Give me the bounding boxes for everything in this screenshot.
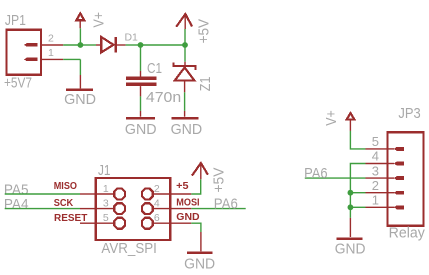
svg-text:6: 6 bbox=[154, 212, 160, 224]
svg-text:2: 2 bbox=[48, 33, 54, 45]
wire V+ to pin5 bbox=[350, 131, 365, 149]
J1 pad 1 bbox=[114, 189, 125, 200]
zener Z1 cathode pin bbox=[184, 62, 186, 66]
svg-text:Z1: Z1 bbox=[197, 77, 214, 92]
JP3 pin 1 stub bbox=[366, 206, 388, 208]
wire pin4 corner down bbox=[350, 164, 365, 218]
J1 pad line 5 bbox=[96, 222, 114, 224]
JP3 pin 4 bar bbox=[388, 163, 395, 165]
J1 pin +5 stub bbox=[170, 193, 191, 195]
wire pin1 right bbox=[63, 58, 80, 60]
zener Z1 anode pin bbox=[184, 80, 186, 92]
JP3 pin 5 bar bbox=[388, 148, 395, 150]
wire +5 to arrow bbox=[191, 179, 200, 194]
J1 pin GND stub bbox=[170, 222, 191, 224]
svg-text:3: 3 bbox=[372, 163, 379, 178]
connector JP1 box bbox=[7, 30, 42, 75]
svg-text:+5V: +5V bbox=[195, 19, 212, 43]
diode D1 bbox=[101, 37, 113, 52]
wire down to C1 bbox=[140, 45, 142, 71]
connector J1 box bbox=[96, 178, 171, 240]
junction pin1 bbox=[348, 204, 354, 210]
wire pin2 to node bbox=[63, 44, 80, 46]
svg-text:PA4: PA4 bbox=[4, 196, 29, 213]
junction node Z1 bbox=[182, 42, 188, 48]
wire node to diode bbox=[80, 44, 96, 46]
svg-text:+5: +5 bbox=[176, 180, 189, 192]
JP3 pin 2 stub bbox=[366, 192, 388, 194]
J1 pad line 4 bbox=[153, 208, 170, 210]
svg-text:2: 2 bbox=[372, 178, 379, 193]
svg-text:2: 2 bbox=[154, 183, 160, 195]
svg-text:GND: GND bbox=[184, 255, 215, 272]
svg-text:PA6: PA6 bbox=[214, 195, 238, 212]
J1 pad line 3 bbox=[96, 208, 114, 210]
svg-text:AVR_SPI: AVR_SPI bbox=[101, 240, 156, 257]
ground pin Z1 bbox=[184, 111, 186, 117]
svg-text:1: 1 bbox=[48, 47, 54, 59]
wire +5V to node bbox=[184, 29, 186, 45]
svg-text:D1: D1 bbox=[125, 31, 139, 43]
ground pin JP1 bbox=[79, 75, 81, 88]
capacitor C1 top pin bbox=[140, 71, 142, 77]
ground symbol under J1 bbox=[187, 251, 212, 254]
wire node to Z1 bbox=[184, 45, 186, 62]
svg-text:JP1: JP1 bbox=[5, 12, 26, 29]
wire net PA6 (JP3) bbox=[305, 177, 366, 179]
connector JP3 box bbox=[388, 132, 424, 226]
svg-text:5: 5 bbox=[372, 134, 379, 149]
wire C1 to ground bbox=[140, 96, 142, 111]
ground symbol under C1 bbox=[126, 117, 155, 120]
power symbol V+ (JP3) bbox=[347, 113, 355, 120]
JP3 pin 3 bar bbox=[388, 177, 395, 179]
junction node C1 bbox=[138, 42, 144, 48]
power symbol +5V (top) bbox=[184, 14, 186, 29]
wire pin2 bbox=[350, 192, 365, 194]
JP3 pin 5 stub bbox=[366, 148, 388, 150]
JP1 pin 1 stub bbox=[42, 58, 63, 60]
wire node C1 to node Z1 bbox=[141, 44, 186, 46]
wire net PA4 bbox=[5, 208, 80, 210]
J1 pin SCK stub bbox=[80, 208, 96, 210]
J1 pad 2 bbox=[142, 189, 153, 200]
svg-text:C1: C1 bbox=[147, 60, 162, 77]
svg-text:4: 4 bbox=[154, 198, 160, 210]
svg-text:+5V: +5V bbox=[210, 168, 227, 193]
wire pin1 down bbox=[79, 59, 81, 75]
svg-text:1: 1 bbox=[372, 193, 379, 208]
svg-text:MISO: MISO bbox=[54, 180, 77, 192]
svg-text:JP3: JP3 bbox=[398, 105, 420, 122]
wire GND down bbox=[191, 223, 201, 232]
svg-text:MOSI: MOSI bbox=[176, 197, 199, 209]
capacitor C1 bbox=[126, 77, 156, 80]
JP3 pin 1 bar bbox=[388, 206, 395, 208]
svg-text:V+: V+ bbox=[91, 12, 108, 28]
power symbol +5V (J1) bbox=[200, 163, 202, 179]
ground symbol under JP1 bbox=[66, 88, 93, 91]
svg-text:PA6: PA6 bbox=[304, 165, 328, 182]
svg-text:GND: GND bbox=[335, 240, 366, 257]
JP3 pin 4 stub bbox=[366, 163, 388, 165]
J1 pad line 1 bbox=[96, 193, 114, 195]
svg-text:J1: J1 bbox=[98, 162, 111, 179]
zener diode Z1 bbox=[174, 63, 196, 70]
wire V+ down to node bbox=[79, 28, 81, 45]
power symbol V+ (top left) bbox=[76, 13, 84, 20]
wire diode to node C1 bbox=[126, 44, 141, 46]
ground symbol under JP3 bbox=[337, 237, 363, 240]
capacitor C1 bottom pin bbox=[140, 86, 142, 96]
wire Z1 to ground bbox=[184, 92, 186, 111]
diode D1 cathode pin bbox=[116, 44, 126, 46]
J1 pad line 2 bbox=[153, 193, 170, 195]
wire net PA5 bbox=[5, 193, 80, 195]
J1 pad 6 bbox=[142, 218, 153, 229]
svg-text:GND: GND bbox=[176, 211, 200, 223]
junction node pin2/V+ bbox=[78, 42, 84, 48]
svg-text:GND: GND bbox=[64, 91, 96, 108]
J1 pad 5 bbox=[114, 218, 125, 229]
wire pin1 bbox=[350, 206, 365, 208]
JP1 pin 2 bar bbox=[24, 43, 38, 47]
junction pin2 bbox=[348, 190, 354, 196]
ground pin J1 bbox=[200, 232, 202, 251]
svg-text:GND: GND bbox=[171, 121, 203, 138]
JP3 pin 2 bar bbox=[388, 192, 395, 194]
svg-text:Relay: Relay bbox=[389, 225, 426, 242]
wire net PA6 (J1) bbox=[191, 208, 245, 210]
J1 pin MOSI stub bbox=[170, 208, 191, 210]
svg-text:V+: V+ bbox=[323, 110, 340, 126]
diode D1 anode pin bbox=[96, 44, 101, 46]
J1 pad 3 bbox=[114, 203, 125, 214]
svg-text:+5V7: +5V7 bbox=[4, 74, 32, 91]
svg-text:GND: GND bbox=[125, 121, 157, 138]
J1 pin MISO stub bbox=[80, 193, 96, 195]
svg-text:5: 5 bbox=[103, 212, 109, 224]
svg-text:RESET: RESET bbox=[54, 212, 88, 224]
svg-text:1: 1 bbox=[103, 183, 109, 195]
svg-text:470n: 470n bbox=[146, 89, 181, 106]
svg-text:SCK: SCK bbox=[54, 197, 74, 209]
ground pin C1 bbox=[140, 111, 142, 117]
J1 pin RESET stub bbox=[80, 222, 96, 224]
JP3 pin 3 stub bbox=[366, 177, 388, 179]
JP1 pin 1 bar bbox=[24, 58, 38, 62]
J1 pad 4 bbox=[142, 203, 153, 214]
svg-text:3: 3 bbox=[103, 198, 109, 210]
J1 pad line 6 bbox=[153, 222, 170, 224]
svg-text:4: 4 bbox=[372, 149, 379, 164]
ground symbol under Z1 bbox=[171, 117, 198, 120]
ground pin JP3 bbox=[349, 218, 351, 237]
JP1 pin 2 stub bbox=[42, 44, 63, 46]
